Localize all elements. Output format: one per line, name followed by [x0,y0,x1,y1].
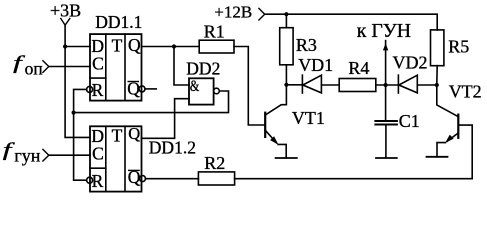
inversion circle pin Q-bar DD1.2 [140,176,146,182]
svg-text:R2: R2 [204,153,225,173]
resistor R3 [280,28,293,65]
svg-text:R1: R1 [204,22,225,42]
node junction Q1 / gate input [172,44,176,48]
label DD1.1 [95,12,142,32]
svg-text:DD1.2: DD1.2 [149,138,196,158]
label R3 [296,35,317,55]
label C1 [399,111,420,131]
transistor VT1 [265,85,286,158]
svg-text:оп: оп [25,59,43,79]
ground symbol at C1 [376,157,397,159]
output arrow to k GUN [383,41,388,85]
node junction +3V / D1 [63,44,67,48]
svg-text:+3В: +3В [50,0,81,20]
wire f_gun to pin C of DD1.2 [49,154,90,156]
pin label inverse Q of DD1.2 [128,167,141,187]
svg-text:C1: C1 [399,111,420,131]
flip-flop DD1.1 body [90,34,142,101]
wire R1 to VT1 base [234,47,265,126]
flip-flop DD1.2 body [90,126,142,191]
input f_gun label [3,140,41,166]
capacitor C1 [375,85,397,158]
pin label Q of DD1.2 [128,124,140,143]
node junction reset net [72,111,76,115]
wire to pin D of DD1.1 [65,46,90,48]
svg-text:+12В: +12В [214,3,252,22]
diode VD2 [398,75,417,93]
wire R4 to node C1 [376,84,399,86]
wire VD1 to R4 [322,84,340,86]
svg-text:Q: Q [128,35,141,55]
label R2 [204,153,225,173]
inversion circle pin R DD1.1 [87,86,93,92]
svg-text:C: C [92,144,104,164]
node junction R3 / VT1 collector / diode row [284,83,288,87]
pin label D of DD1.2 [91,126,104,146]
label VT1 [292,108,325,128]
power +3V arrow symbol [61,19,70,26]
svg-text:DD1.1: DD1.1 [95,12,142,32]
diode VD1 [302,75,321,93]
svg-text:гун: гун [14,146,40,166]
wire node to VD1 [286,84,302,86]
overbar of inverse Q DD1.1 [128,81,138,83]
svg-text:R5: R5 [448,36,469,56]
label R4 [348,58,369,78]
pin label C of DD1.1 [92,54,104,74]
wire gate input 1 from Q DD1.1 [174,47,189,86]
resistor R4 [339,79,376,92]
svg-text:T: T [112,35,123,55]
AND symbol of DD2 [190,79,200,96]
function label T of DD1.2 [112,126,123,146]
ground symbol at VT2 emitter [427,156,448,158]
wire R5 to collector node [436,66,438,85]
resistor R2 [198,172,234,185]
label DD1.2 [149,138,196,158]
label VT2 [449,81,482,101]
pin label R of DD1.1 [92,80,104,100]
label VD2 [393,52,428,72]
ground symbol at VT1 emitter [276,157,297,159]
wire R2 to VT2 base (bottom run) [235,125,473,179]
svg-text:R3: R3 [296,35,317,55]
svg-text:VT2: VT2 [449,81,482,101]
svg-text:VD2: VD2 [393,52,428,72]
wire f_op to pin C of DD1.1 [49,66,90,68]
wire rail to R3 [285,14,287,28]
label R5 [448,36,469,56]
wire VD2 to node R5 [417,84,436,86]
AND gate DD2 body [189,78,214,104]
svg-text:R: R [92,80,104,100]
power +12V label [214,3,252,22]
inversion circle output DD2 [214,88,220,94]
label k GUN [357,20,411,42]
resistor R5 [431,30,444,66]
pin label R of DD1.2 [92,171,104,191]
svg-text:к ГУН: к ГУН [357,20,411,42]
resistor R1 [199,40,234,53]
node junction rail / R3 [284,12,288,16]
svg-text:VT1: VT1 [292,108,325,128]
svg-text:&: & [190,79,200,96]
wire +12V supply rail [265,14,438,30]
power +3V label [50,0,81,20]
wire Q-bar DD1.2 to R2 [146,178,199,180]
wire gate input 2 from Q DD1.2 [142,99,190,139]
pin label C of DD1.2 [92,144,104,164]
svg-text:DD2: DD2 [186,58,220,78]
label VD1 [298,55,333,75]
label R1 [204,22,225,42]
node junction R5 / VT2 collector [435,83,439,87]
wire reset net to R pins [74,89,87,180]
input terminal chevron f_gun [43,149,49,161]
pin label inverse Q of DD1.1 [127,79,140,99]
overbar of inverse Q DD1.2 [129,169,139,171]
svg-text:C: C [92,54,104,74]
power +12V terminal chevron [259,8,265,20]
label DD2 [186,58,220,78]
svg-text:R4: R4 [348,58,369,78]
svg-text:R: R [92,171,104,191]
svg-text:Q: Q [128,124,140,143]
node junction C1 / k GUN output [384,83,388,87]
transistor VT2 [437,85,459,157]
inversion circle pin Q-bar DD1.1 [139,86,145,92]
function label T of DD1.1 [112,35,123,55]
input f_op label [13,53,43,79]
svg-text:VD1: VD1 [298,55,333,75]
wire Q DD1.1 to R1 [142,46,200,48]
wire R3 to collector node [285,65,287,85]
pin label Q of DD1.1 [128,35,141,55]
wire reset net from DD2 output [74,91,229,113]
stub wire Q-bar DD1.1 [145,88,156,90]
svg-text:T: T [112,126,123,146]
pin label D of DD1.1 [91,36,104,56]
inversion circle pin R DD1.2 [87,177,93,183]
wire +3V vertical to D inputs [65,25,90,137]
input terminal chevron f_op [43,61,49,73]
